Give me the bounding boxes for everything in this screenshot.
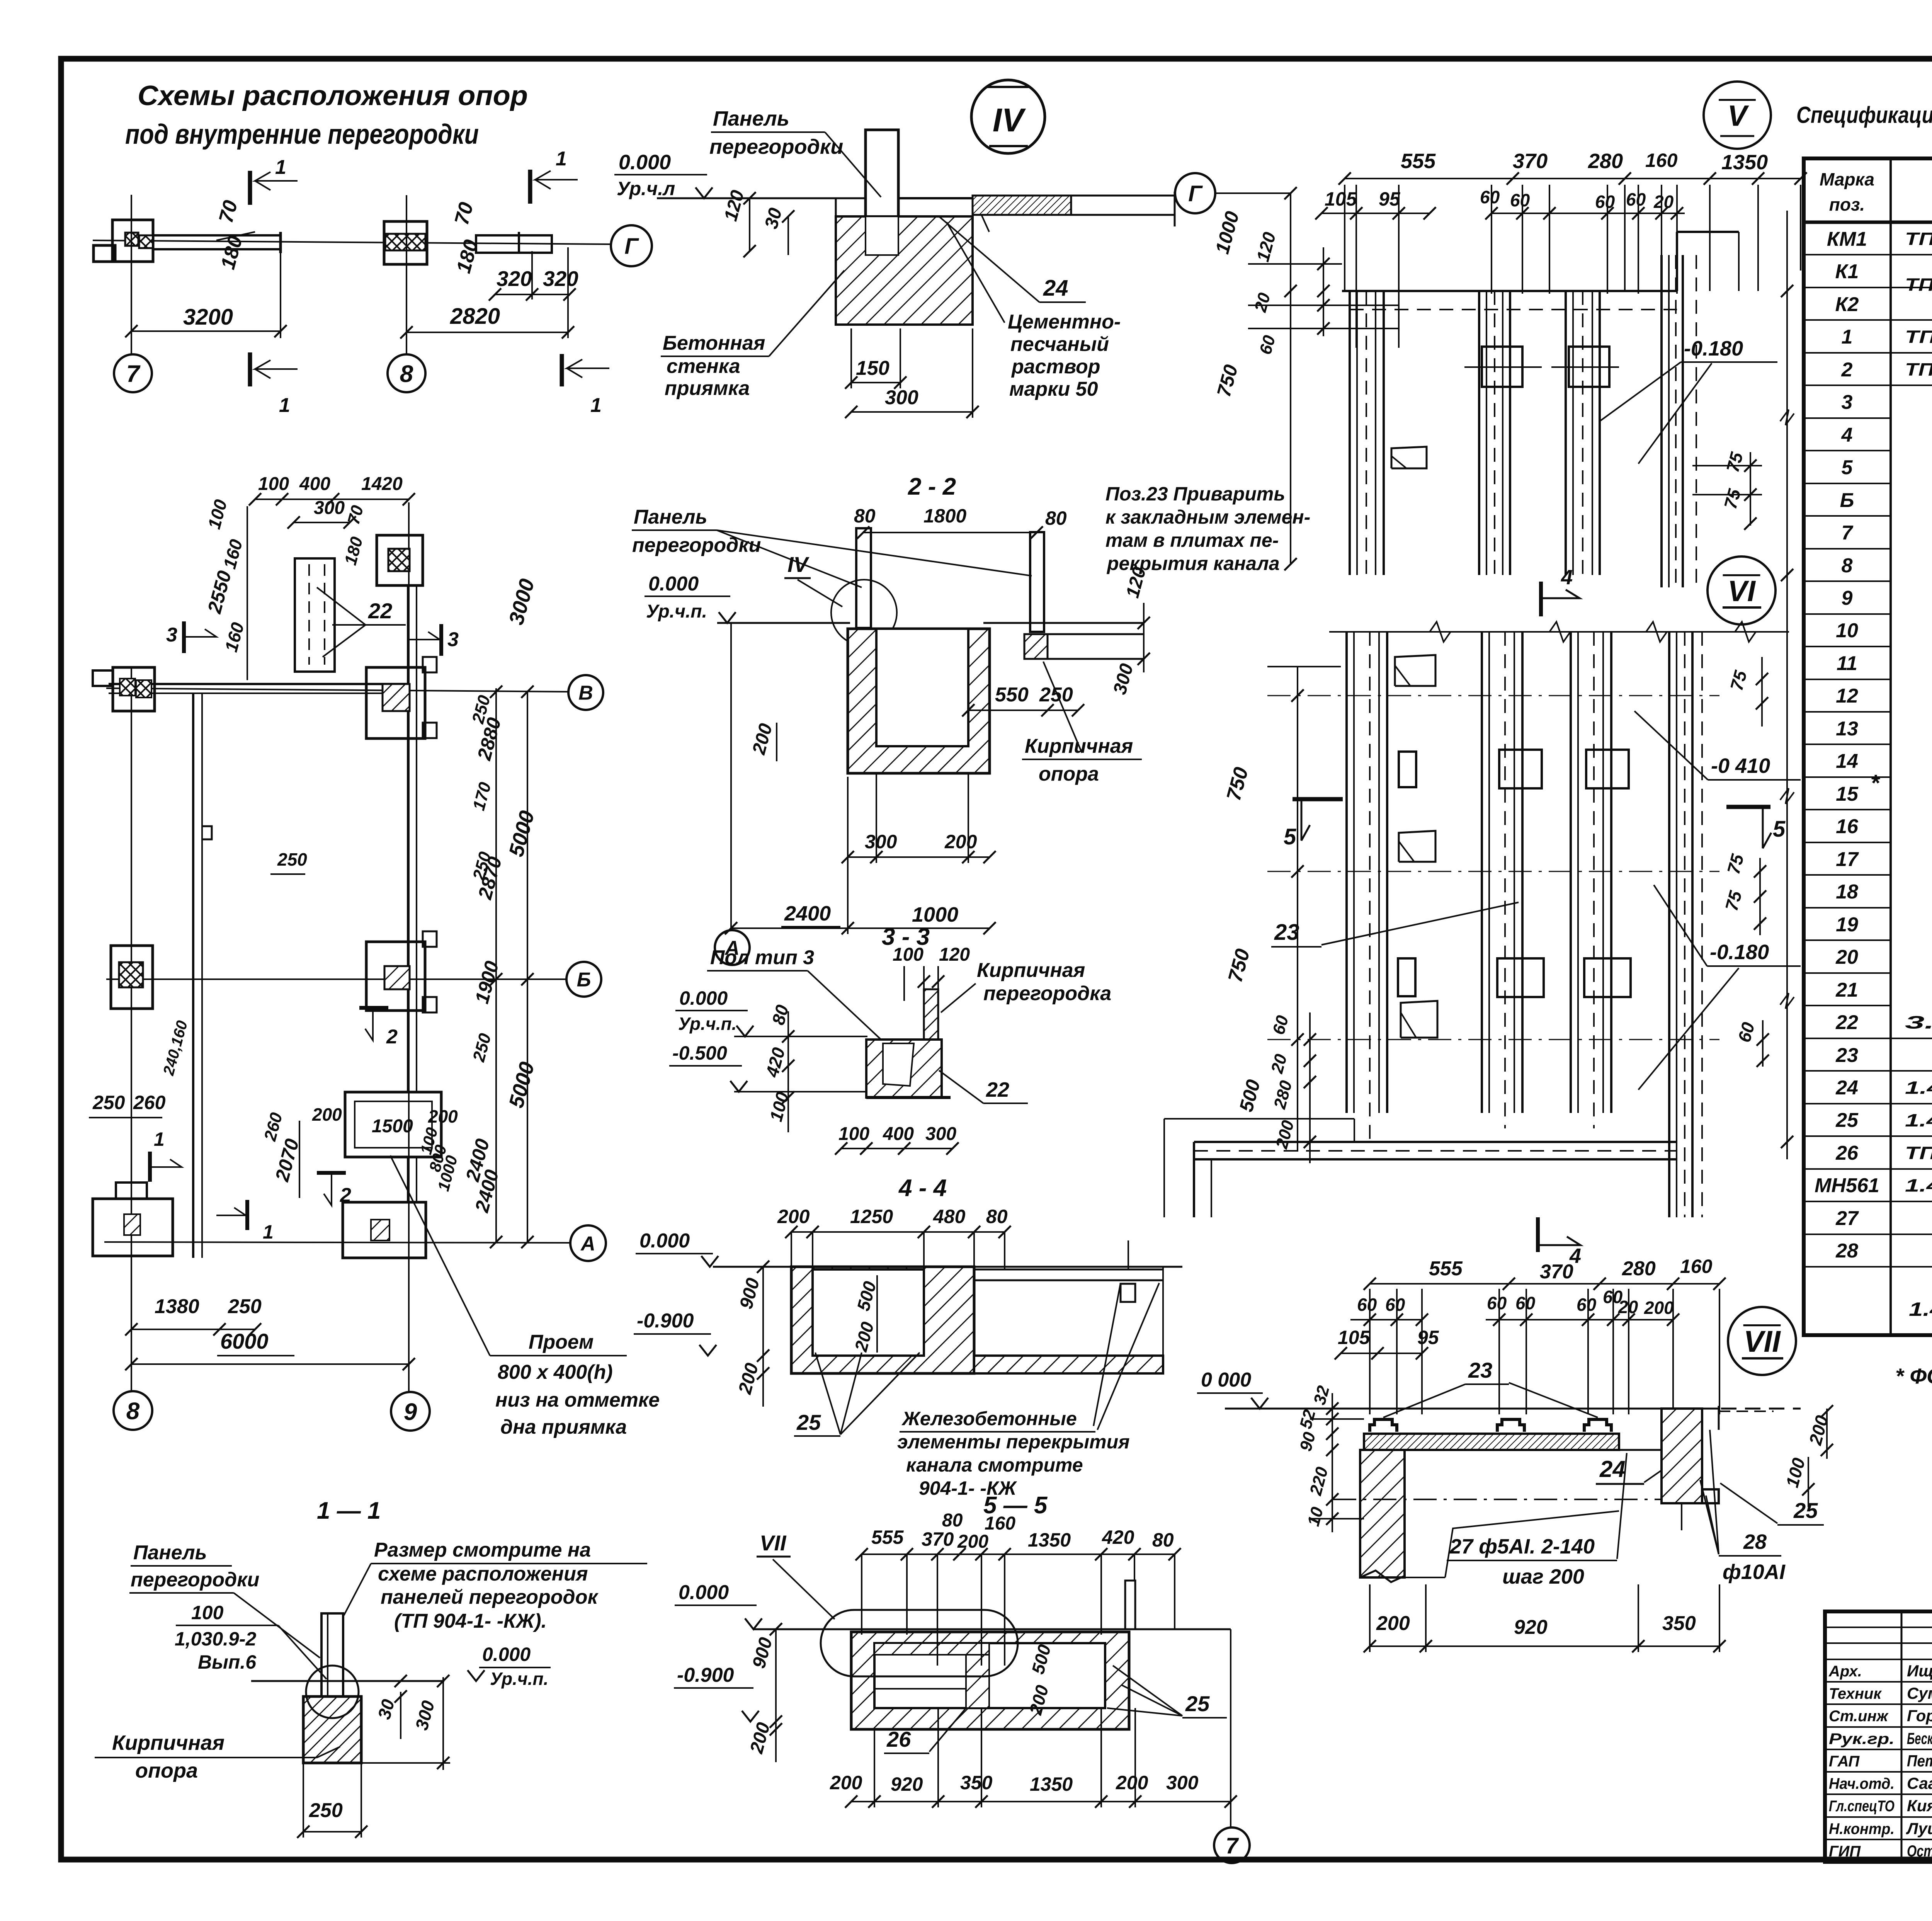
svg-text:60: 60: [1357, 1295, 1377, 1315]
section mark 1 (right top): [528, 170, 532, 204]
plan Г channel group 1: [1349, 291, 1351, 575]
svg-text:555: 555: [871, 1526, 904, 1548]
svg-text:60: 60: [1515, 1293, 1536, 1313]
svg-text:Рук.гр.: Рук.гр.: [1829, 1730, 1895, 1747]
svg-text:Вып.6: Вып.6: [198, 1651, 257, 1673]
svg-text:4 - 4: 4 - 4: [898, 1175, 947, 1201]
plan Г outline top edge: [1342, 290, 1677, 292]
detail circle (1-1): [306, 1666, 359, 1718]
svg-text:7: 7: [126, 361, 141, 387]
svg-text:200: 200: [777, 1206, 810, 1227]
svg-text:22: 22: [986, 1078, 1009, 1101]
svg-text:100: 100: [893, 944, 923, 965]
svg-text:7: 7: [1842, 522, 1854, 544]
pier P2 (axis В left): [113, 667, 155, 711]
pier P4 (axis Б left): [111, 946, 153, 1009]
svg-text:Ищенко: Ищенко: [1907, 1662, 1932, 1680]
svg-text:60: 60: [1487, 1293, 1507, 1313]
section mark 4 (VII top): [1536, 1217, 1540, 1252]
svg-text:*: *: [1870, 770, 1880, 796]
svg-text:200: 200: [1644, 1298, 1674, 1318]
beam strip axis 8-Г: [476, 235, 552, 253]
plan VI channel group 3: [1570, 632, 1572, 1113]
svg-text:0.000: 0.000: [679, 1581, 729, 1604]
svg-text:дна приямка: дна приямка: [500, 1416, 627, 1438]
svg-text:1500: 1500: [372, 1116, 413, 1137]
svg-text:2: 2: [1841, 359, 1853, 381]
section mark 4 (plan Г bottom): [1539, 582, 1543, 616]
svg-text:Ст.инж: Ст.инж: [1829, 1708, 1889, 1725]
svg-text:ф10АI: ф10АI: [1723, 1560, 1786, 1584]
svg-text:под внутренние перегородки: под внутренние перегородки: [125, 119, 479, 150]
svg-text:100: 100: [258, 474, 289, 494]
svg-text:Гл.спецТО: Гл.спецТО: [1829, 1798, 1895, 1815]
partition panel (IV): [866, 130, 898, 250]
pier P1 (top, axis 9): [377, 535, 423, 585]
svg-text:95: 95: [1417, 1327, 1439, 1348]
svg-text:200: 200: [1116, 1772, 1148, 1793]
plan: top wall horizontal double line: [109, 683, 408, 685]
svg-text:Панель: Панель: [133, 1542, 207, 1564]
svg-text:105: 105: [1338, 1327, 1371, 1348]
svg-text:10: 10: [1836, 619, 1858, 642]
svg-text:Горская: Горская: [1907, 1707, 1932, 1725]
bottom slab right (4-4): [974, 1356, 1163, 1373]
svg-text:8: 8: [126, 1398, 140, 1424]
svg-text:23: 23: [1468, 1358, 1492, 1382]
plan VI bottom wall band: [1194, 1141, 1677, 1143]
svg-text:Г: Г: [1188, 181, 1203, 206]
svg-text:25: 25: [796, 1410, 821, 1434]
svg-text:к закладным элемен-: к закладным элемен-: [1105, 506, 1310, 528]
svg-text:рекрытия канала: рекрытия канала: [1106, 553, 1280, 574]
svg-text:160: 160: [1680, 1256, 1713, 1277]
svg-text:24: 24: [1599, 1456, 1626, 1482]
svg-text:250: 250: [92, 1092, 125, 1113]
svg-text:-0.180: -0.180: [1684, 337, 1743, 360]
ground line (4-4): [713, 1266, 811, 1268]
svg-text:1380: 1380: [155, 1295, 199, 1318]
plan: axis circle 8 (bottom): [114, 1391, 152, 1430]
svg-text:1.400-15 В.1 110-11: 1.400-15 В.1 110-11: [1905, 1110, 1932, 1130]
title block signature columns: [1901, 1611, 1903, 1862]
spec table column lines: [1889, 158, 1892, 1335]
svg-text:Размер смотрите на: Размер смотрите на: [374, 1539, 591, 1561]
svg-text:1: 1: [154, 1128, 165, 1150]
floor lines (3-3): [734, 1036, 867, 1037]
svg-text:12: 12: [1836, 685, 1858, 707]
svg-text:канала смотрите: канала смотрите: [906, 1454, 1083, 1476]
svg-text:-0 410: -0 410: [1711, 754, 1770, 778]
beam strip axis 7-Г: [153, 235, 281, 249]
pier P3 (axis В mid): [366, 667, 425, 738]
svg-text:250: 250: [1039, 684, 1073, 706]
svg-text:25: 25: [1835, 1109, 1859, 1132]
svg-text:80: 80: [1152, 1529, 1174, 1551]
plan VI right dim line with breaks: [1786, 211, 1788, 1159]
pier plan at axis 7: [112, 220, 153, 262]
axis circle 7 (5-5): [1230, 1629, 1231, 1827]
plan: axis line А: [104, 1242, 570, 1243]
svg-text:4: 4: [1841, 424, 1853, 446]
svg-text:370: 370: [1540, 1261, 1573, 1283]
svg-text:Техник: Техник: [1829, 1685, 1882, 1702]
svg-text:100: 100: [191, 1602, 224, 1623]
cement mortar pocket (IV): [866, 216, 898, 255]
svg-text:22: 22: [1835, 1011, 1858, 1034]
svg-text:2: 2: [386, 1026, 398, 1048]
plan Г channel group 4 (right wall): [1660, 255, 1663, 587]
detail circle IV: [971, 80, 1045, 153]
svg-text:8: 8: [400, 361, 413, 387]
svg-text:320: 320: [497, 267, 532, 291]
svg-text:поз.: поз.: [1829, 194, 1865, 214]
svg-text:раствор: раствор: [1011, 356, 1100, 378]
svg-text:Ур.ч.п.: Ур.ч.п.: [678, 1014, 736, 1034]
svg-text:Арх.: Арх.: [1828, 1663, 1862, 1680]
plan Г horizontal dashed line: [1350, 309, 1677, 310]
svg-text:-0.900: -0.900: [677, 1664, 734, 1686]
svg-text:Поз.23 Приварить: Поз.23 Приварить: [1105, 483, 1285, 505]
svg-text:4: 4: [1561, 566, 1573, 589]
VII extension lines: [1369, 1289, 1371, 1414]
spec table outer box: [1804, 158, 1932, 1335]
title block signature rows: [1825, 1627, 1932, 1628]
ground line (5-5): [753, 1628, 1231, 1630]
svg-text:100: 100: [838, 1124, 869, 1144]
svg-text:ТП904-1- - КЖ лист 19: ТП904-1- - КЖ лист 19: [1905, 229, 1932, 249]
svg-text:Схемы расположения опор: Схемы расположения опор: [138, 80, 528, 111]
plan: axis line В: [106, 688, 568, 692]
svg-text:1: 1: [263, 1221, 274, 1243]
svg-text:IV: IV: [993, 102, 1026, 139]
svg-text:60: 60: [1385, 1295, 1405, 1315]
extension lines from dims down: [1344, 185, 1345, 291]
svg-text:приямка: приямка: [665, 377, 750, 400]
svg-text:0.000: 0.000: [648, 573, 699, 595]
svg-text:Петровский: Петровский: [1907, 1752, 1932, 1770]
svg-text:Цементно-: Цементно-: [1008, 311, 1121, 333]
5-5 top slab strip: [874, 1643, 989, 1655]
svg-text:1.400-15 В.1 561-03: 1.400-15 В.1 561-03: [1905, 1176, 1932, 1196]
svg-text:80: 80: [1045, 507, 1067, 529]
svg-text:V: V: [1728, 99, 1749, 132]
svg-text:низ на отметке: низ на отметке: [495, 1389, 660, 1411]
svg-text:ТП904-1- -КЖ.лист 34: ТП904-1- -КЖ.лист 34: [1905, 327, 1932, 347]
channel section (5-5): [851, 1632, 1129, 1729]
svg-text:опора: опора: [135, 1759, 198, 1782]
svg-text:Ур.ч.л: Ур.ч.л: [617, 178, 675, 199]
svg-text:1: 1: [1842, 326, 1853, 348]
svg-text:Кирпичная: Кирпичная: [112, 1731, 224, 1754]
svg-text:0.000: 0.000: [619, 151, 671, 174]
svg-text:2400: 2400: [784, 902, 831, 925]
hook anchor (4-4): [1121, 1284, 1135, 1302]
svg-text:800 х 400(h): 800 х 400(h): [498, 1361, 613, 1383]
svg-text:250: 250: [309, 1799, 343, 1822]
svg-text:Спецификация к схеме расположе: Спецификация к схеме расположения элемен…: [1796, 102, 1932, 128]
svg-text:370: 370: [1513, 150, 1548, 173]
svg-text:1: 1: [279, 394, 290, 417]
svg-text:1,030.9-2: 1,030.9-2: [175, 1628, 256, 1650]
svg-text:1350: 1350: [1030, 1773, 1073, 1795]
svg-text:ГИП: ГИП: [1829, 1843, 1861, 1860]
svg-text:3.006.1-2/0. 2: 3.006.1-2/0. 2: [1905, 1012, 1932, 1032]
break line top (plan VI): [1329, 631, 1789, 633]
svg-text:перегородка: перегородка: [983, 982, 1111, 1005]
svg-text:0 000: 0 000: [1201, 1369, 1251, 1391]
svg-text:Б: Б: [577, 969, 591, 991]
plan: right wall vertical double line: [407, 585, 409, 1092]
svg-text:0.000: 0.000: [482, 1644, 531, 1665]
svg-text:23: 23: [1274, 920, 1299, 945]
opening проем rectangle: [345, 1092, 441, 1157]
axis line 7 vertical: [131, 195, 132, 354]
svg-text:3: 3: [447, 628, 459, 651]
svg-text:105: 105: [1325, 188, 1357, 210]
svg-text:20: 20: [1653, 192, 1674, 212]
plan Г channel group 2: [1478, 291, 1480, 575]
svg-text:перегородки: перегородки: [632, 534, 761, 556]
svg-text:Нач.отд.: Нач.отд.: [1829, 1775, 1895, 1792]
plan VI piers row 2: [1497, 958, 1544, 997]
brick partition bar (3-3): [924, 989, 938, 1044]
svg-text:VII: VII: [1743, 1324, 1781, 1358]
svg-text:3200: 3200: [183, 305, 233, 330]
svg-text:Проем: Проем: [529, 1331, 594, 1353]
svg-text:80: 80: [986, 1206, 1008, 1227]
svg-text:160: 160: [1645, 150, 1678, 171]
lines to the right (VII): [1405, 1449, 1662, 1451]
section mark 1 (top): [248, 171, 252, 205]
pier P5 (axis Б right): [366, 942, 425, 1011]
svg-text:марки 50: марки 50: [1009, 378, 1098, 400]
svg-text:300: 300: [314, 498, 345, 518]
svg-text:300: 300: [925, 1124, 956, 1144]
svg-text:ТП904-1- -КЖШ-МН14: ТП904-1- -КЖШ-МН14: [1905, 1143, 1932, 1163]
svg-text:МН561: МН561: [1815, 1174, 1879, 1197]
svg-text:Ур.ч.п.: Ур.ч.п.: [646, 601, 707, 622]
top thin slab right (4-4): [974, 1269, 1163, 1271]
svg-text:Кирпичная: Кирпичная: [977, 959, 1085, 982]
svg-text:ТП 904-1- -КЖ. лист 17: ТП 904-1- -КЖ. лист 17: [1905, 274, 1932, 294]
ground line (VII): [1225, 1408, 1673, 1410]
svg-text:1 — 1: 1 — 1: [317, 1497, 381, 1524]
svg-text:280: 280: [1588, 150, 1623, 173]
svg-text:9: 9: [404, 1399, 417, 1425]
plan: axis circle 9 (bottom): [391, 1392, 430, 1431]
svg-text:160: 160: [985, 1513, 1015, 1534]
svg-text:400: 400: [299, 474, 330, 494]
spec table row lines: [1804, 254, 1932, 255]
svg-text:опора: опора: [1039, 763, 1099, 785]
svg-text:28: 28: [1743, 1530, 1767, 1553]
svg-text:300: 300: [885, 386, 918, 409]
right wall stub above ground (5-5): [1125, 1581, 1135, 1629]
svg-text:19: 19: [1836, 914, 1858, 936]
svg-text:25: 25: [1793, 1498, 1818, 1523]
svg-text:480: 480: [933, 1206, 966, 1227]
left pier (VII): [1360, 1450, 1405, 1577]
svg-text:0.000: 0.000: [639, 1230, 690, 1252]
svg-text:Г: Г: [624, 234, 639, 259]
svg-text:-0.180: -0.180: [1710, 941, 1769, 964]
svg-text:14: 14: [1836, 750, 1858, 772]
ground line (2-2): [717, 622, 850, 624]
detail circle around panel foot (2-2): [831, 580, 897, 645]
svg-text:песчаный: песчаный: [1010, 333, 1109, 356]
svg-text:VI: VI: [1728, 575, 1756, 607]
svg-text:Ур.ч.п.: Ур.ч.п.: [490, 1669, 548, 1689]
svg-text:2 - 2: 2 - 2: [908, 473, 956, 500]
svg-text:1: 1: [275, 156, 286, 179]
svg-text:8: 8: [1842, 555, 1853, 577]
panel bars (2-2): [856, 528, 871, 628]
svg-text:300: 300: [865, 831, 897, 852]
plan VI horizontal axis dashed rows: [1267, 695, 1719, 696]
svg-text:16: 16: [1836, 815, 1859, 838]
plan VI piers row 1: [1499, 750, 1542, 788]
right dim chain inner: [495, 688, 497, 1242]
svg-text:Б: Б: [1840, 489, 1854, 512]
svg-text:Саакьянц: Саакьянц: [1907, 1774, 1932, 1792]
plan: axis circle Б: [566, 962, 601, 997]
pier P6 (axis А left): [93, 1199, 173, 1256]
svg-text:К1: К1: [1835, 260, 1859, 283]
svg-text:Луценко: Луценко: [1906, 1819, 1932, 1838]
svg-text:5: 5: [1773, 817, 1786, 842]
floor slab right hatched (IV): [973, 196, 1071, 215]
svg-text:555: 555: [1429, 1257, 1463, 1280]
svg-text:там в плитах пе-: там в плитах пе-: [1105, 529, 1279, 551]
svg-text:1.400- 15 В·1 340-09: 1.400- 15 В·1 340-09: [1909, 1298, 1932, 1320]
svg-text:150: 150: [856, 357, 889, 379]
floor slab hatched (VII): [1364, 1434, 1619, 1450]
axis circle А (4-4): [570, 1225, 606, 1261]
svg-text:(ТП 904-1- -КЖ).: (ТП 904-1- -КЖ).: [394, 1610, 547, 1632]
spec table header row: [1804, 221, 1932, 224]
svg-text:95: 95: [1379, 188, 1401, 210]
svg-text:320: 320: [543, 267, 578, 291]
svg-text:Кияшко: Кияшко: [1907, 1797, 1932, 1815]
pier plan at axis 8: [384, 221, 427, 264]
section marks 2: [359, 1006, 388, 1010]
svg-text:VII: VII: [760, 1531, 787, 1555]
section mark 1 (bottom): [248, 352, 252, 386]
svg-text:350: 350: [960, 1772, 993, 1793]
svg-text:1: 1: [590, 394, 602, 417]
svg-text:120: 120: [939, 944, 970, 965]
brick pier (1-1): [303, 1696, 361, 1763]
plan Г piers on channels: [1482, 347, 1522, 387]
svg-text:7: 7: [1226, 1833, 1239, 1858]
svg-text:200: 200: [312, 1104, 342, 1125]
plan: left wall vertical double line: [192, 693, 194, 1258]
svg-text:350: 350: [1662, 1612, 1696, 1635]
axis circle Г (plan): [1175, 173, 1215, 213]
svg-text:1250: 1250: [850, 1206, 893, 1227]
svg-text:200: 200: [1376, 1612, 1410, 1635]
svg-text:схеме расположения: схеме расположения: [378, 1563, 588, 1585]
svg-text:1.400-15 В.1 550.06: 1.400-15 В.1 550.06: [1905, 1077, 1932, 1097]
section marks 1 (plan): [148, 1152, 152, 1182]
svg-text:200: 200: [830, 1772, 862, 1793]
svg-text:5: 5: [1284, 824, 1296, 849]
detail circle VI: [1708, 556, 1776, 624]
svg-text:22: 22: [368, 599, 392, 623]
svg-text:420: 420: [1102, 1526, 1134, 1548]
anchor clips (VII): [1370, 1419, 1397, 1432]
svg-text:21: 21: [1835, 979, 1858, 1001]
svg-text:1350: 1350: [1028, 1529, 1071, 1551]
svg-text:920: 920: [1514, 1616, 1548, 1639]
svg-text:300: 300: [1166, 1772, 1199, 1793]
svg-text:200: 200: [944, 831, 977, 852]
axis line 8 vertical: [406, 195, 407, 354]
plan: axis 9 vertical line: [408, 502, 410, 1391]
brick pier (2-2 right): [1024, 634, 1048, 659]
concrete pit wall hatched (IV): [836, 216, 973, 325]
partition panel in plan (dashed): [295, 558, 335, 672]
svg-text:200: 200: [957, 1531, 988, 1552]
svg-text:60: 60: [1510, 190, 1530, 210]
svg-text:перегородки: перегородки: [709, 135, 843, 158]
svg-text:26: 26: [886, 1727, 911, 1751]
svg-text:18: 18: [1836, 881, 1858, 903]
svg-text:IV: IV: [787, 552, 810, 577]
svg-text:280: 280: [1622, 1257, 1656, 1280]
plan VI channel group 4 (right wall): [1668, 632, 1670, 1217]
plan: axis 8 vertical line: [131, 669, 132, 1390]
spec heading circle V: [1704, 82, 1771, 149]
svg-text:Марка: Марка: [1820, 169, 1874, 189]
svg-text:0.000: 0.000: [679, 987, 728, 1009]
axis circle 7: [114, 354, 152, 392]
svg-text:Бетонная: Бетонная: [663, 332, 765, 354]
channel section (4-4): [791, 1267, 974, 1373]
svg-text:80: 80: [854, 505, 876, 527]
svg-text:3: 3: [166, 624, 177, 646]
plan Г hatch flag: [1391, 447, 1427, 468]
svg-text:Панель: Панель: [713, 107, 789, 130]
svg-text:370: 370: [922, 1528, 954, 1550]
svg-text:27 ф5АI. 2-140: 27 ф5АI. 2-140: [1449, 1535, 1595, 1558]
svg-text:24: 24: [1835, 1077, 1858, 1099]
svg-text:250: 250: [277, 849, 307, 869]
svg-text:23: 23: [1835, 1044, 1858, 1067]
svg-text:11: 11: [1837, 652, 1857, 675]
svg-text:1800: 1800: [923, 505, 966, 527]
svg-text:панелей перегородок: панелей перегородок: [381, 1586, 599, 1608]
title block outer: [1825, 1611, 1932, 1862]
svg-text:17: 17: [1836, 848, 1859, 871]
plan VI channel group 2: [1481, 632, 1483, 1113]
svg-text:26: 26: [1835, 1142, 1859, 1164]
axis circle 8: [388, 354, 425, 392]
section marks 5: [1293, 797, 1343, 801]
svg-text:Н.контр.: Н.контр.: [1829, 1821, 1895, 1838]
svg-text:6000: 6000: [220, 1329, 269, 1353]
plan VI channel group 1: [1345, 632, 1348, 1113]
plan VI bottom-left wall corner: [1164, 1118, 1354, 1120]
svg-text:260: 260: [133, 1092, 166, 1113]
floor slab block (3-3): [866, 1040, 942, 1097]
svg-text:15: 15: [1836, 783, 1859, 805]
svg-text:550: 550: [995, 684, 1029, 706]
svg-text:перегородки: перегородки: [131, 1569, 259, 1591]
ground line (1-1): [251, 1680, 444, 1682]
section marks 3: [182, 621, 186, 653]
